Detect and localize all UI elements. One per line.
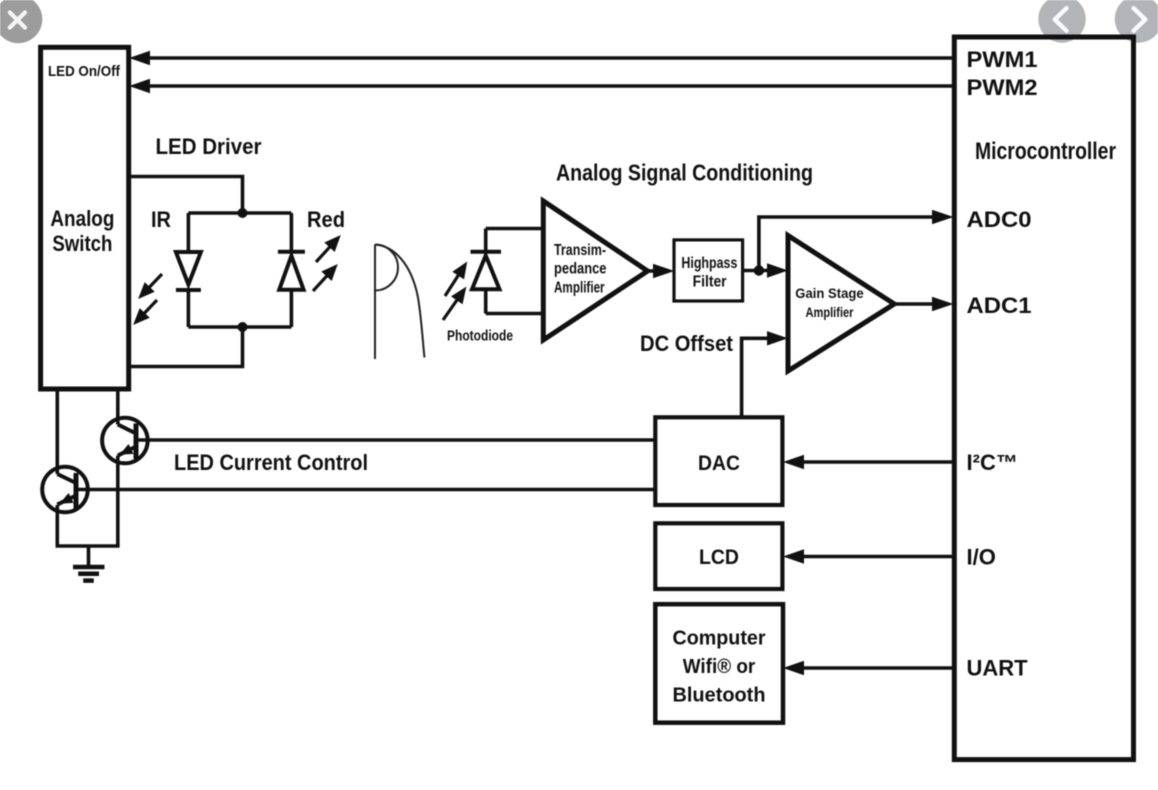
svg-text:Bluetooth: Bluetooth — [673, 685, 766, 707]
svg-text:LED Current Control: LED Current Control — [174, 450, 368, 475]
svg-text:IR: IR — [151, 207, 171, 232]
svg-text:Wifi® or: Wifi® or — [683, 656, 756, 678]
svg-text:pedance: pedance — [554, 261, 607, 278]
svg-text:Transim-: Transim- — [554, 242, 606, 259]
svg-text:I²C™: I²C™ — [967, 450, 1018, 475]
svg-text:Microcontroller: Microcontroller — [975, 138, 1116, 165]
svg-text:Amplifier: Amplifier — [554, 280, 605, 297]
svg-text:PWM1: PWM1 — [967, 47, 1038, 72]
svg-text:Red: Red — [307, 207, 345, 232]
svg-text:UART: UART — [967, 655, 1029, 680]
svg-text:ADC1: ADC1 — [967, 293, 1032, 318]
svg-text:Amplifier: Amplifier — [806, 304, 854, 320]
svg-text:Highpass: Highpass — [681, 255, 737, 272]
svg-text:LCD: LCD — [699, 546, 739, 569]
svg-text:DC Offset: DC Offset — [640, 331, 734, 356]
svg-text:LED Driver: LED Driver — [156, 134, 262, 159]
svg-text:Computer: Computer — [673, 628, 766, 650]
svg-text:Filter: Filter — [693, 273, 727, 290]
svg-text:DAC: DAC — [698, 452, 740, 475]
svg-text:Photodiode: Photodiode — [447, 329, 513, 345]
svg-text:LED On/Off: LED On/Off — [48, 63, 121, 80]
svg-text:Gain Stage: Gain Stage — [795, 285, 864, 301]
svg-text:PWM2: PWM2 — [967, 75, 1038, 100]
svg-text:Analog: Analog — [50, 206, 114, 231]
svg-text:I/O: I/O — [967, 544, 996, 569]
svg-text:Analog Signal Conditioning: Analog Signal Conditioning — [556, 160, 813, 186]
svg-text:ADC0: ADC0 — [967, 207, 1032, 232]
svg-text:Switch: Switch — [52, 231, 112, 256]
